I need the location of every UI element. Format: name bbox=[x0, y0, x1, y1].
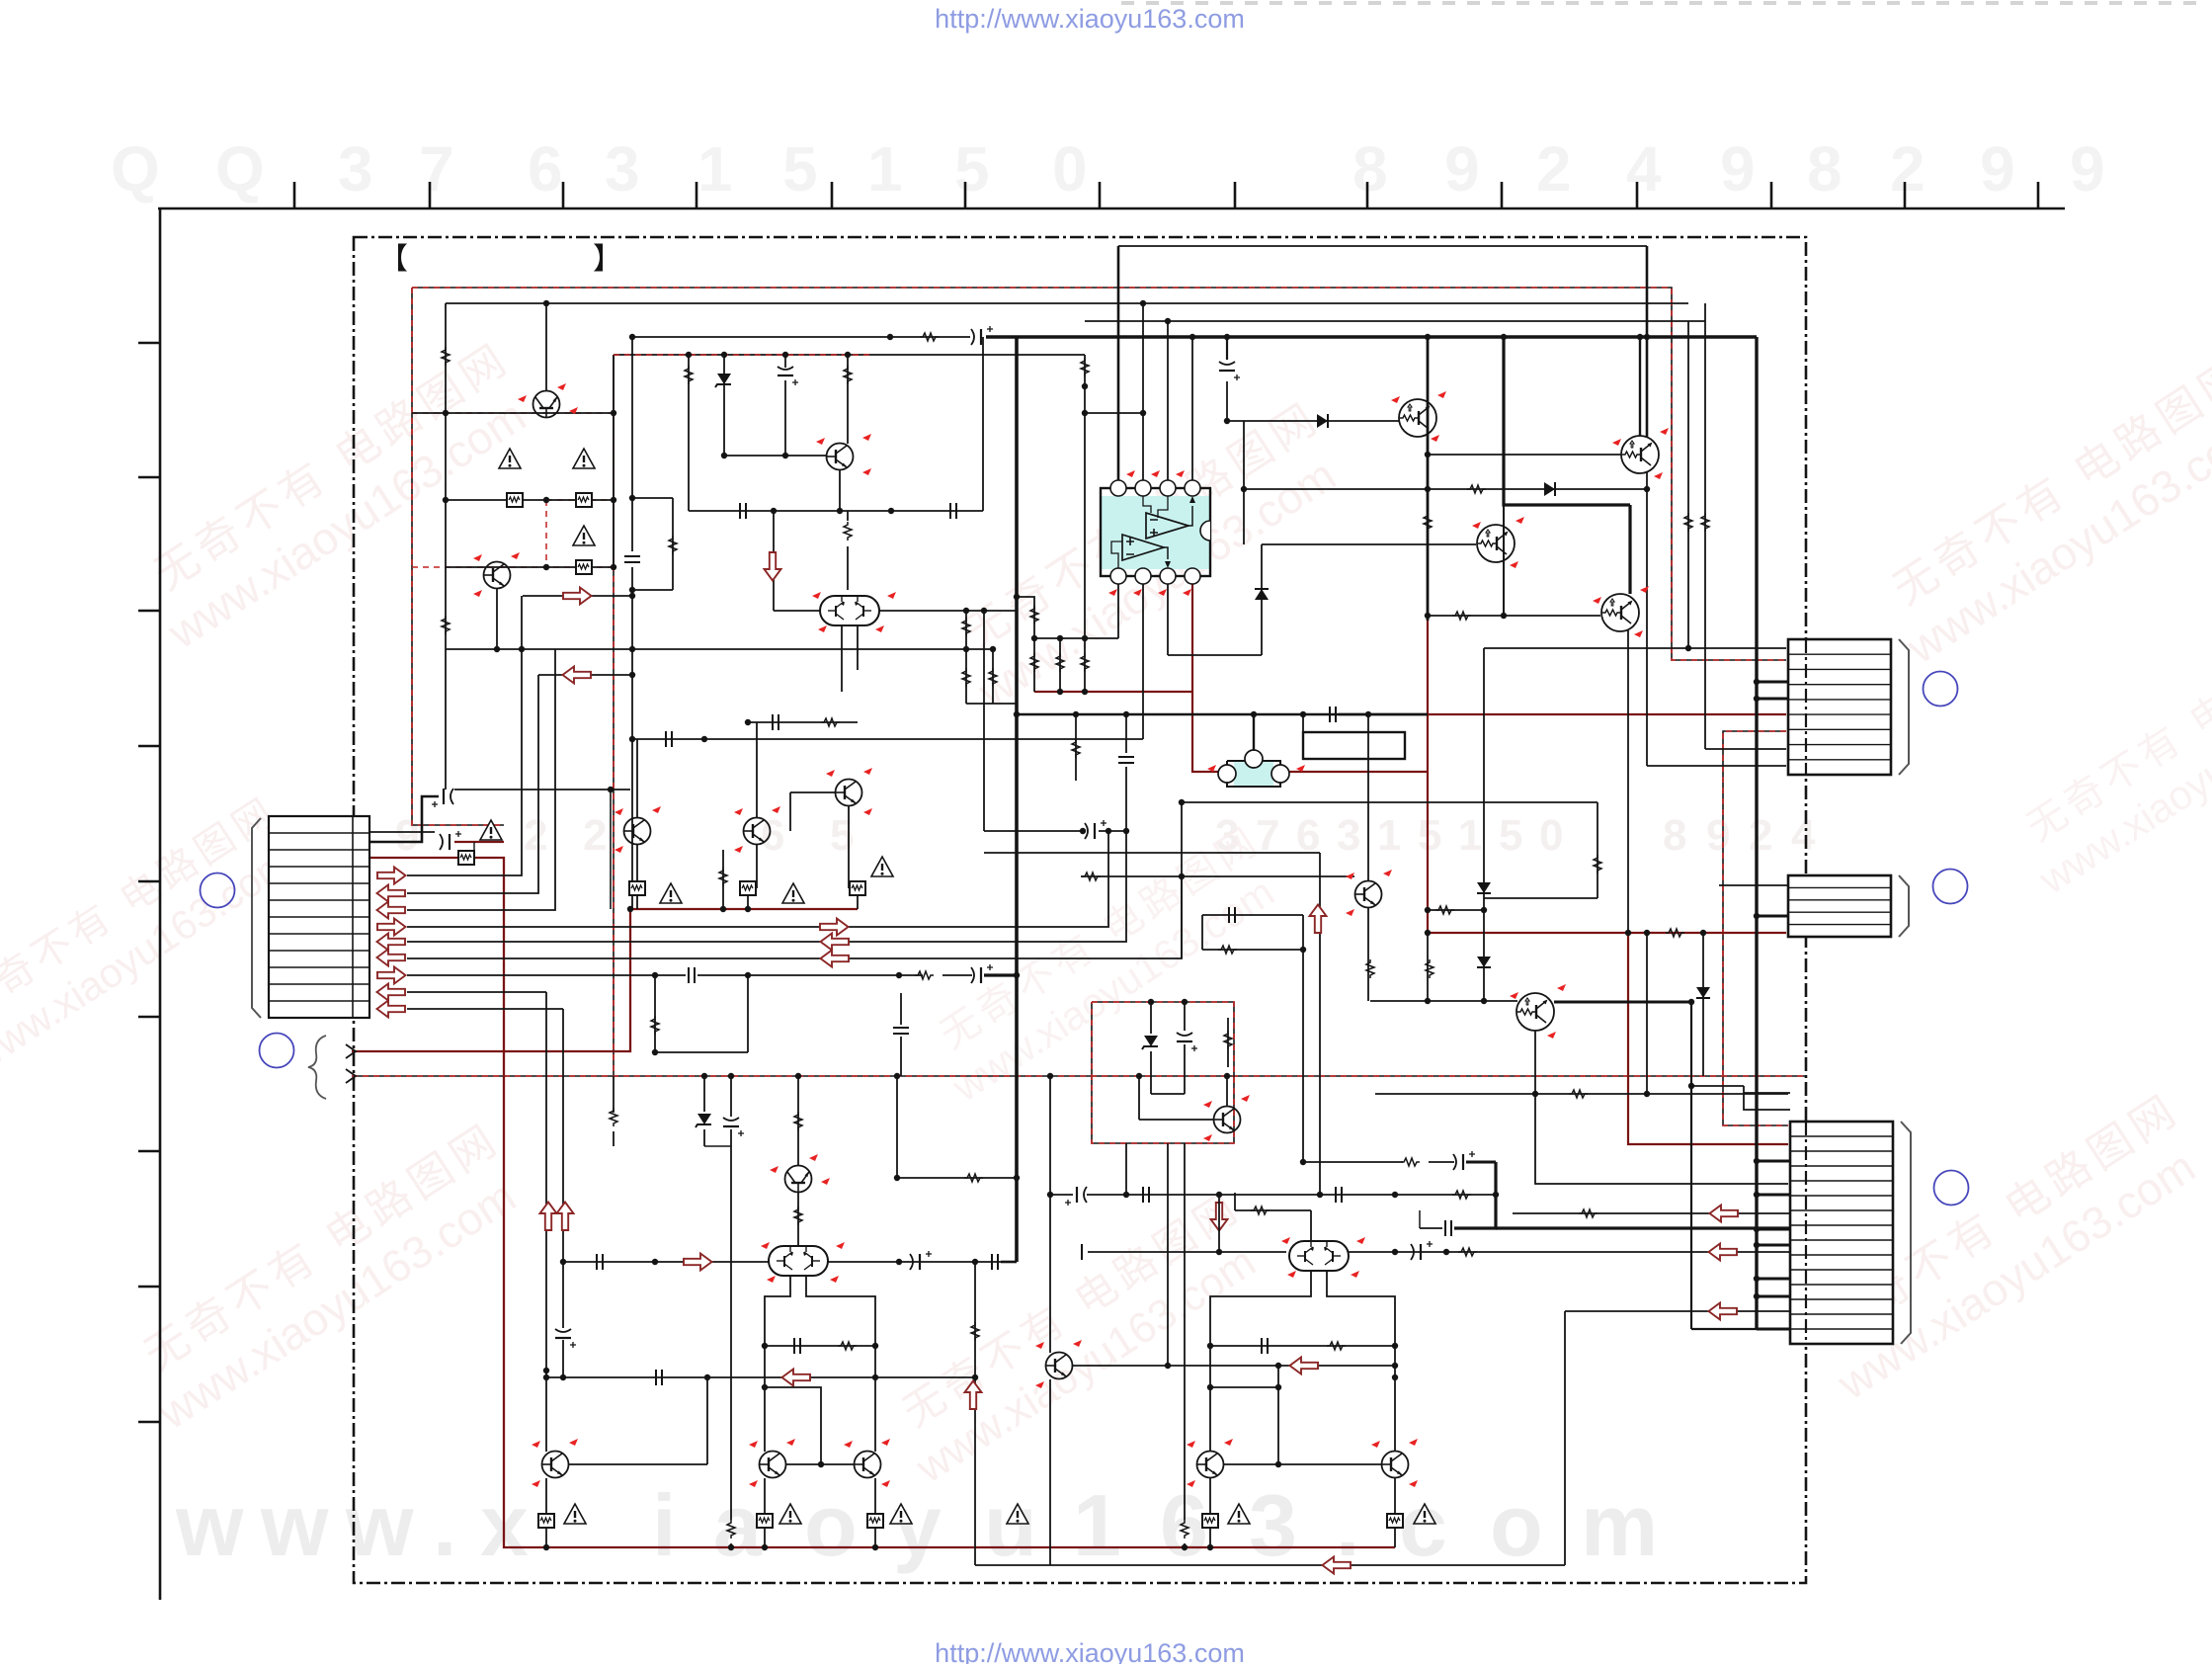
y1362 RC row b bbox=[1210, 1345, 1395, 1347]
wire y1394 bbox=[546, 1376, 975, 1378]
signal line y987 w/ cap bbox=[407, 974, 686, 976]
x1140 branch cap bbox=[1125, 714, 1127, 753]
ruler tick top 11 bbox=[1636, 182, 1639, 208]
dual transistor Q4 (oval) bbox=[820, 596, 879, 625]
Q20 emitter down bbox=[1049, 1379, 1051, 1565]
wire y495 resistor+diode bbox=[1244, 488, 1647, 490]
resistor R x1089 bbox=[1072, 739, 1080, 758]
electrolytic C red box bbox=[1177, 1033, 1197, 1051]
warning triangle w5 bbox=[782, 883, 804, 903]
maroon wire: IC pin to resonator bbox=[1192, 584, 1218, 772]
svg-text:3: 3 bbox=[605, 133, 640, 205]
transistor Q8 (digital) bbox=[1399, 399, 1436, 437]
resistor R y1228 bbox=[1579, 1209, 1598, 1217]
Q13 thick collector line bbox=[1554, 1001, 1691, 1004]
wire y909 bbox=[1484, 897, 1598, 899]
ruler: left edge line bbox=[159, 209, 162, 1600]
resistor R x808 bbox=[794, 1112, 802, 1130]
svg-text:Q: Q bbox=[215, 133, 265, 205]
wire y1176 bbox=[1303, 1161, 1403, 1163]
maroon wire: to connector pin bbox=[352, 909, 630, 1051]
svg-text:1: 1 bbox=[697, 133, 733, 205]
IC pin circle bottom x1157 bbox=[1135, 568, 1151, 584]
resistor x621 bbox=[613, 1076, 614, 1113]
thick x1667 bbox=[1646, 246, 1649, 438]
wire: y459 row bbox=[724, 455, 826, 457]
ruler tick top 5 bbox=[831, 182, 834, 208]
signal line y970 (bus) bbox=[407, 876, 1182, 958]
ruler tick left 7 bbox=[138, 1150, 160, 1153]
wire y1013 bbox=[1370, 1000, 1517, 1002]
wire y460 to Q9 bbox=[1428, 454, 1621, 456]
connector CN202 comb pins bbox=[1788, 886, 1891, 888]
ruler tick top 7 bbox=[1099, 182, 1102, 208]
svg-text:5: 5 bbox=[1499, 811, 1522, 860]
zener x713 bbox=[703, 1076, 705, 1112]
x1502 diodes bbox=[1483, 648, 1485, 1001]
svg-text:9: 9 bbox=[2070, 133, 2105, 205]
ruler tick top 3 bbox=[562, 182, 565, 208]
diode D y495 bbox=[1544, 482, 1555, 496]
red dashed net: right drop to CN203 bbox=[1723, 731, 1788, 1125]
wire: x645 to Q5 bbox=[636, 739, 638, 818]
wire: y683 arrow line bbox=[538, 674, 632, 676]
down arrow x1234 bbox=[1211, 1203, 1228, 1231]
transistor Q14 bbox=[1214, 1107, 1241, 1133]
emitters to maroon bbox=[764, 1478, 766, 1514]
wire: x996 down to cap bbox=[983, 611, 985, 831]
IC pin circle top x1207 bbox=[1185, 480, 1200, 496]
arrow left mid bus 3 bbox=[821, 951, 850, 967]
warning triangle w1 bbox=[499, 449, 521, 468]
wire: y799 from cap bbox=[454, 789, 630, 790]
ruler tick top 4 bbox=[696, 182, 698, 208]
electrolytic C y1176 bbox=[1453, 1151, 1475, 1170]
warning triangle w3 bbox=[573, 526, 595, 545]
thick x1445 bbox=[1427, 337, 1430, 621]
resistor R y1107 bbox=[1569, 1090, 1588, 1098]
transistor Q9 (digital) bbox=[1621, 436, 1659, 473]
boxed resistor RB7 on maroon bbox=[458, 851, 474, 865]
arrow left y1394 bbox=[782, 1370, 811, 1386]
wire: y748 cap row bbox=[632, 738, 1143, 740]
resistor R y961 bbox=[1218, 946, 1237, 954]
svg-text:o: o bbox=[804, 1476, 858, 1574]
svg-text:0: 0 bbox=[1052, 133, 1088, 205]
capacitor C y926 bbox=[1229, 907, 1235, 923]
electrolytic x570 bbox=[555, 1329, 576, 1348]
capacitor C y1243 bbox=[1445, 1220, 1451, 1236]
resistor R x740 bbox=[727, 1520, 735, 1539]
capacitor C y517 a bbox=[740, 503, 746, 519]
svg-text:2: 2 bbox=[1536, 133, 1572, 205]
transistor Q13 (digital, big) bbox=[1516, 993, 1554, 1031]
svg-text:9: 9 bbox=[1720, 133, 1756, 205]
IC U1 (cyan op-amp pack) bbox=[1101, 496, 1210, 569]
boxed resistor RB6 bbox=[857, 895, 859, 909]
arrow right y1277 bbox=[684, 1254, 712, 1271]
zener D x733 bbox=[723, 355, 725, 456]
svg-text:4: 4 bbox=[1791, 811, 1816, 860]
resistor R y731 bbox=[821, 718, 840, 726]
connector CN202 body bbox=[1788, 875, 1891, 937]
arrow left mid bus 2 bbox=[821, 934, 850, 951]
signal line y1021 bbox=[407, 1008, 563, 1010]
resistors R x978/x1005 lower bbox=[965, 649, 967, 704]
resistor R y987 bbox=[915, 971, 934, 979]
ruler tick top 9 bbox=[1366, 182, 1369, 208]
emitters to maroon b bbox=[1209, 1478, 1211, 1514]
electrolytic C on supply feed bbox=[971, 326, 993, 345]
signal line y904 bbox=[407, 675, 538, 893]
connector CN202 bracket bbox=[1899, 875, 1909, 937]
arrow ar at connector line y886 bbox=[377, 868, 406, 884]
svg-text:7: 7 bbox=[419, 133, 454, 205]
resistor R x451 upper bbox=[442, 347, 450, 366]
right-side verticals to connector bbox=[1687, 321, 1689, 648]
svg-text:9: 9 bbox=[1444, 133, 1480, 205]
thick L x1522 bbox=[1504, 337, 1630, 505]
IC pin circle top x1132 bbox=[1110, 480, 1126, 496]
ruler tick left 8 bbox=[138, 1286, 160, 1289]
boxed resistor RB3 + row y574 bbox=[446, 566, 614, 568]
warning triangle w2 bbox=[573, 449, 595, 468]
resistor R x1617 bbox=[1594, 855, 1601, 874]
resistor x740 bbox=[730, 1076, 732, 1117]
transistors Q18 Q19 bbox=[760, 1452, 786, 1478]
resistor R x732 bbox=[722, 850, 724, 909]
IC internal wires bbox=[1143, 496, 1151, 513]
transistor Q3 bbox=[827, 444, 854, 470]
wire: cap row y517 bbox=[689, 510, 983, 512]
wire: x638 vertical bbox=[631, 337, 633, 551]
wire to CN203 y1198 bbox=[1535, 1094, 1788, 1184]
y1362 RC row bbox=[765, 1345, 875, 1347]
boxed resistor RB4 bbox=[636, 895, 638, 909]
svg-text:c: c bbox=[1399, 1476, 1447, 1574]
wire: Q collector to top bus bbox=[545, 303, 547, 391]
boxed resistor RB1 bbox=[507, 493, 523, 507]
ruler: top edge line bbox=[158, 208, 2065, 210]
jog x1029 to resistor chain bbox=[1017, 597, 1034, 638]
arrow al at connector line y1004 bbox=[377, 984, 406, 1001]
IC pin circle bottom x1182 bbox=[1160, 568, 1176, 584]
dual transistor Q21 (oval) bbox=[1289, 1241, 1349, 1271]
off-page pin 1 bbox=[346, 1044, 356, 1058]
electrolytic C y987 bbox=[971, 964, 993, 983]
red dashed net: left drop bbox=[412, 288, 504, 825]
wire: y841 to ecap bbox=[984, 830, 1085, 832]
connector CN203 bracket bbox=[1901, 1122, 1911, 1344]
resistor R y921 bbox=[1435, 906, 1454, 914]
ruler tick top 8 bbox=[1234, 182, 1237, 208]
y1225 res to oval top bbox=[1235, 1209, 1311, 1211]
thick x1650 into Q11 bbox=[1628, 505, 1631, 594]
svg-text:5: 5 bbox=[954, 133, 990, 205]
ruler tick left 9 bbox=[138, 1421, 160, 1424]
svg-text:8: 8 bbox=[1352, 133, 1388, 205]
transistors Q22 Q23 bbox=[1197, 1452, 1224, 1478]
boxed resistor RB12 bbox=[1387, 1514, 1403, 1528]
x1336 drop bbox=[1319, 853, 1321, 1195]
wire to CN201 pin7 bbox=[1705, 748, 1786, 750]
wire: cap feed thick L bbox=[369, 796, 439, 842]
resistor R x1447 bbox=[1426, 959, 1434, 978]
IC pin circle bottom x1207 bbox=[1185, 568, 1200, 584]
capacitor C x912 bbox=[893, 1028, 909, 1034]
wire: thick supply bus y341 bbox=[632, 336, 970, 338]
y1192 res row bbox=[897, 1177, 1017, 1179]
Q14 base from red bus bbox=[1139, 1119, 1214, 1121]
warning triangle w7 bbox=[480, 820, 502, 840]
curly brace below CN101 bbox=[308, 1036, 326, 1099]
transistor Q5 bbox=[624, 818, 651, 845]
blue ref circle (220,901) bbox=[201, 874, 235, 908]
connector CN201 bracket bbox=[1899, 639, 1909, 775]
diode D x1502 lower bbox=[1477, 957, 1491, 967]
x987 vertical w/ resistor bbox=[974, 1262, 976, 1565]
red dashed box: regulator cell bbox=[1092, 1002, 1234, 1143]
Q11 emitter down to supply return bbox=[1627, 630, 1629, 933]
dash-dot border over right connectors bbox=[1805, 639, 1807, 775]
arrow left y1382 bbox=[1290, 1358, 1319, 1374]
op-amp A inside IC bbox=[1146, 513, 1188, 539]
x808 vertical chain bbox=[797, 1076, 799, 1166]
transistor Q12 bbox=[1355, 881, 1382, 908]
wire y1267 right bbox=[1349, 1251, 1790, 1253]
transistor Q10 (digital) bbox=[1477, 525, 1515, 562]
oval Q21 legs bbox=[1210, 1271, 1311, 1452]
transistor Q15 bbox=[785, 1166, 812, 1193]
x570 long vertical bbox=[562, 1009, 564, 1328]
wire y1099 bbox=[1691, 1085, 1744, 1087]
x553 long vertical bbox=[545, 992, 547, 1452]
wire: Q3 emitter down w/ resistor bbox=[839, 469, 841, 511]
resistor R x1098 top bbox=[1081, 358, 1089, 376]
maroon wire: IC ground bus bbox=[1034, 691, 1192, 693]
y646 bus bbox=[1034, 637, 1118, 639]
connector CN201 comb pins bbox=[1788, 653, 1891, 655]
svg-text:.: . bbox=[433, 1476, 456, 1574]
x908 vertical bbox=[896, 1076, 898, 1178]
boxed resistor RB8 bbox=[538, 1514, 554, 1528]
RC pair y926/y961 bbox=[1202, 914, 1303, 916]
CN203 thick pin stubs bbox=[1757, 1160, 1790, 1163]
svg-text:5: 5 bbox=[1418, 811, 1441, 860]
signal line y953 (bus) bbox=[407, 831, 1126, 942]
resistor R x1199 bbox=[1181, 1520, 1188, 1539]
resistor R y1267 bbox=[1458, 1248, 1477, 1256]
y418 link bbox=[1084, 412, 1143, 414]
resistor R x1726 bbox=[1701, 513, 1709, 532]
wire: y731 row cap+res bbox=[748, 721, 858, 723]
svg-text:】: 】 bbox=[593, 243, 622, 276]
wire: oval base left bbox=[774, 610, 820, 612]
maroon wire: main ground return bbox=[369, 858, 1395, 1547]
resistor R x1047 to gnd bus bbox=[1033, 638, 1035, 692]
arrow al at connector line y1021 bbox=[377, 1001, 406, 1018]
IC pin circle bottom x1132 bbox=[1110, 568, 1126, 584]
wire y1584 long bottom bbox=[975, 1564, 1565, 1566]
wire y1277 left bbox=[563, 1261, 769, 1263]
blue ref circle (1974,897) bbox=[1933, 870, 1968, 904]
IC pin circle top x1182 bbox=[1160, 480, 1176, 496]
x1089 branch bbox=[1075, 714, 1077, 781]
arrow al at connector line y969 bbox=[377, 950, 406, 966]
svg-text:9: 9 bbox=[395, 811, 419, 860]
arrow ar at connector line y938 bbox=[377, 919, 406, 936]
x1259 vertical bbox=[1243, 421, 1245, 489]
arrow al at connector line y904 bbox=[377, 885, 406, 902]
transistor Q11 (digital) bbox=[1601, 594, 1639, 631]
resistor R x858 bbox=[847, 355, 849, 444]
wire: x681 branch bbox=[632, 497, 673, 499]
transistor Q20 bbox=[1046, 1353, 1073, 1379]
wire: x618 drop bbox=[610, 790, 612, 909]
wire: component row top y359 bbox=[614, 354, 1085, 356]
ruler tick left 4 bbox=[138, 745, 160, 748]
ruler tick top 12 bbox=[1770, 182, 1773, 208]
capacitor C y723 bbox=[1330, 707, 1336, 722]
diode row y426 bbox=[1244, 420, 1399, 422]
wire y663 pin3 to diode bbox=[1168, 654, 1262, 656]
capacitor C y1277 bbox=[597, 1254, 603, 1270]
x1098 vertical bbox=[1084, 355, 1086, 638]
CN203 top pins bbox=[1744, 1086, 1790, 1110]
capacitor C y1362 b bbox=[1262, 1338, 1268, 1354]
stub pin y842 bbox=[369, 831, 435, 833]
wire: base line y418 bbox=[412, 412, 614, 414]
wire: resistor row y506 bbox=[446, 499, 614, 501]
arrow up x987 bbox=[965, 1381, 982, 1410]
svg-text:5: 5 bbox=[830, 811, 854, 860]
electrolytic C y1277 bbox=[910, 1251, 932, 1270]
wire: y657 row bbox=[446, 648, 993, 650]
svg-text:1: 1 bbox=[1377, 811, 1401, 860]
transistor Q6 bbox=[744, 818, 771, 845]
resistor R x987 bbox=[971, 1322, 979, 1341]
Q12 collector/emitter bbox=[1367, 714, 1369, 881]
dual oval at 860,618 right line bbox=[879, 610, 1017, 612]
warning triangles bottom row bbox=[779, 1504, 801, 1524]
resistor R y1225 bbox=[1251, 1206, 1270, 1214]
connector CN101 divider bbox=[352, 816, 354, 1018]
capacitor C y748 bbox=[666, 731, 672, 747]
ruler tick left 6 bbox=[138, 1016, 160, 1019]
electrolytic C y1209 bbox=[1065, 1187, 1087, 1206]
wire y1482 between bbox=[786, 1463, 854, 1465]
thick L x1514 bbox=[1454, 1162, 1496, 1228]
y1192 corner from res row to thick bbox=[896, 1177, 898, 1179]
arrow al at connector line y921 bbox=[377, 902, 406, 919]
schematic dash-dot border bbox=[354, 237, 1806, 1583]
svg-text:http://www.xiaoyu163.com: http://www.xiaoyu163.com bbox=[935, 1638, 1245, 1664]
wire y1382 T19 base row bbox=[1073, 1365, 1395, 1367]
wire: oval legs down bbox=[841, 625, 843, 692]
maroon wire: to CN202 bbox=[1428, 932, 1786, 934]
x663 drop with resistor bbox=[654, 975, 656, 1052]
svg-text:Q: Q bbox=[111, 133, 160, 205]
svg-text:6: 6 bbox=[528, 133, 563, 205]
IC pin wires down bbox=[1117, 584, 1119, 638]
double up arrows bbox=[540, 1203, 557, 1231]
diode D y426 bbox=[1317, 414, 1328, 428]
capacitor C y1362 bbox=[794, 1338, 800, 1354]
empty rect block bbox=[1303, 732, 1405, 759]
svg-text:5: 5 bbox=[782, 133, 818, 205]
svg-text:i: i bbox=[652, 1476, 676, 1574]
thick bus x1778 bbox=[1755, 337, 1758, 1329]
svg-text:4: 4 bbox=[1626, 133, 1662, 205]
red dashed net: inner block left bbox=[613, 413, 614, 1076]
resistor R x1709 bbox=[1684, 513, 1692, 532]
resistor R x1387 bbox=[1366, 959, 1374, 978]
signal line y938 (bus) bbox=[407, 831, 1108, 927]
maroon wire: to CN201 pin5 bbox=[1428, 713, 1786, 715]
svg-text:http://www.xiaoyu163.com: http://www.xiaoyu163.com bbox=[935, 4, 1245, 34]
ruler tick top 1 bbox=[293, 182, 296, 208]
arrow up x1334 bbox=[1310, 905, 1327, 934]
svg-text:2: 2 bbox=[583, 811, 607, 860]
wire Q17 emitter to gnd bbox=[546, 1476, 549, 1514]
CN202 pin stubs bbox=[1757, 915, 1788, 918]
capacitor C x1140 bbox=[1118, 757, 1134, 763]
blue ref circle (1975,1202) bbox=[1934, 1171, 1969, 1206]
svg-text:1: 1 bbox=[1073, 1476, 1121, 1574]
diode D x1502 upper bbox=[1477, 882, 1491, 893]
wire y551 Q10 base bbox=[1262, 543, 1476, 545]
arrow down into oval bbox=[765, 552, 781, 581]
bus y723 bbox=[1017, 713, 1428, 715]
wire y1209 bbox=[1126, 1194, 1496, 1196]
arrow left y1228 bbox=[1710, 1206, 1739, 1222]
boxed resistor RB10 bbox=[867, 1514, 883, 1528]
wire: bus y325 bbox=[1085, 320, 1705, 322]
wire: Q7 base row y802 bbox=[790, 791, 836, 793]
svg-text:w: w bbox=[260, 1476, 329, 1574]
IC pin circle top x1157 bbox=[1135, 480, 1151, 496]
svg-text:.: . bbox=[1336, 1476, 1359, 1574]
resistor R x1098 to gnd bus bbox=[1084, 638, 1086, 692]
capacitor C y517 b bbox=[950, 503, 956, 519]
wire y1107 bbox=[1375, 1093, 1788, 1095]
svg-text:o: o bbox=[1490, 1476, 1543, 1574]
svg-text:2: 2 bbox=[1749, 811, 1772, 860]
red dashed highlight: top-left net bbox=[412, 412, 614, 414]
Q13 emitter down bbox=[1534, 1031, 1536, 1094]
wire y1482 between bbox=[1224, 1463, 1382, 1465]
off-page pin 2 bbox=[346, 1069, 356, 1083]
svg-text:3: 3 bbox=[338, 133, 373, 205]
resistor R y623 bbox=[1452, 612, 1471, 620]
x1617 branch bbox=[1597, 802, 1598, 898]
transistor Q7 bbox=[836, 780, 862, 806]
zener D x713 bbox=[696, 1114, 711, 1127]
wire y623 to Q11 bbox=[1428, 615, 1600, 617]
resistor R right edge of red box bbox=[1227, 1018, 1229, 1067]
capacitor C y1209 a bbox=[1143, 1187, 1149, 1203]
resistor R x808 lower bbox=[794, 1206, 802, 1225]
arrow al at connector line y953 bbox=[377, 934, 406, 951]
boxed resistor RB5 bbox=[747, 895, 749, 909]
svg-text:w: w bbox=[345, 1476, 414, 1574]
capacitor C y987 bbox=[689, 967, 695, 983]
wire: x766 to Q6 bbox=[756, 722, 758, 818]
IC pin wires up bbox=[1117, 246, 1120, 480]
svg-text:6: 6 bbox=[761, 811, 784, 860]
diode D x1724 bbox=[1696, 987, 1710, 998]
svg-text:8: 8 bbox=[1807, 133, 1843, 205]
